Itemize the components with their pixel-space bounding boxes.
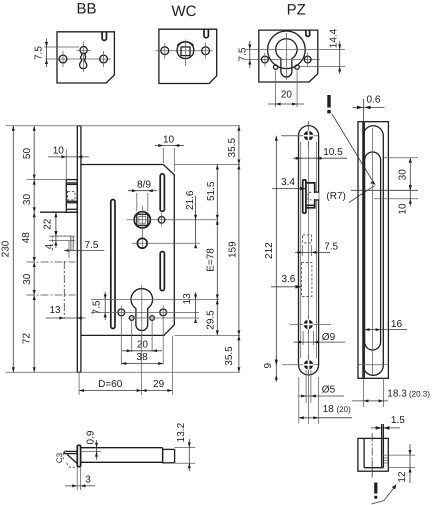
dim 3.4 — [272, 177, 306, 190]
bottom fold line — [358, 364, 388, 366]
dim 13 left — [46, 305, 86, 320]
svg-text:D=60: D=60 — [98, 379, 123, 390]
dim 10.5 — [293, 147, 347, 160]
faceplate outline rounded — [299, 126, 319, 375]
svg-text:(20.3): (20.3) — [409, 390, 430, 399]
svg-text:(R7): (R7) — [326, 191, 345, 202]
svg-text:159: 159 — [227, 241, 238, 258]
dim 10 top right — [155, 135, 184, 173]
box bottom inner — [364, 467, 383, 469]
dim 7.5 faceplate — [295, 242, 339, 254]
PZ fixing hole left — [273, 65, 277, 69]
dash-dot line upper — [27, 261, 76, 263]
inner slot stadium — [365, 152, 381, 350]
latch head bevel — [63, 451, 77, 467]
svg-text:1.5: 1.5 — [391, 415, 405, 426]
BB keyhole — [80, 47, 87, 54]
dim Ø5 — [298, 370, 344, 403]
dim Ø9 — [293, 331, 345, 345]
BB top slot — [102, 32, 106, 41]
svg-text:7.5: 7.5 — [238, 47, 249, 61]
exclamation top — [327, 95, 330, 113]
hidden cylinder hole dash-dot — [301, 263, 312, 297]
dim column 35.5 / 159 / 35.5 — [224, 126, 240, 372]
svg-text:29: 29 — [153, 379, 165, 390]
svg-text:13.2: 13.2 — [176, 422, 187, 442]
svg-text:7.5: 7.5 — [34, 46, 45, 60]
dim 1.5 — [371, 415, 405, 468]
dim column 51.5 / E=78 / 29.5 — [205, 165, 218, 336]
cylinder side holes — [91, 306, 199, 320]
PZ screw hole right — [304, 56, 311, 63]
svg-text:0.9: 0.9 — [85, 430, 96, 444]
BB screw hole right — [100, 55, 108, 63]
svg-text:10: 10 — [53, 146, 65, 157]
svg-text:WC: WC — [172, 3, 197, 20]
chain boundary latch bottom — [40, 211, 77, 213]
dim 4 — [44, 229, 57, 249]
svg-text:0.6: 0.6 — [367, 95, 381, 106]
box hatch right wall — [384, 458, 388, 463]
faceplate strip (edge view) — [77, 126, 81, 372]
svg-text:72: 72 — [22, 333, 33, 345]
hidden follower slot dashed — [303, 235, 312, 256]
svg-text:14.4: 14.4 — [328, 28, 339, 48]
svg-text:35.5: 35.5 — [224, 346, 235, 366]
dim 7.5 cylinder — [91, 292, 106, 320]
svg-text:PZ: PZ — [287, 2, 306, 19]
faceplate section bar — [77, 445, 80, 466]
leader from bottom exclamation — [372, 484, 397, 504]
svg-text:212: 212 — [264, 242, 275, 259]
PZ dim 7.5 — [238, 41, 252, 68]
svg-text:21.6: 21.6 — [185, 190, 196, 210]
dim 20 cylinder fixing — [122, 321, 162, 353]
svg-text:BB: BB — [76, 1, 96, 18]
WC follower circle — [177, 42, 194, 59]
svg-text:13: 13 — [182, 293, 193, 305]
right small hole — [158, 213, 165, 227]
svg-text:13: 13 — [49, 305, 61, 316]
cylinder centerline horizontal — [91, 298, 219, 300]
cylinder hole (europrofile) — [131, 285, 153, 340]
WC follower centerline — [184, 40, 186, 67]
WC follower top arc — [177, 42, 193, 46]
PZ dim 20 — [268, 71, 304, 108]
svg-text:22: 22 — [43, 218, 54, 230]
right upper slot — [160, 174, 164, 212]
svg-text:30: 30 — [22, 194, 33, 206]
svg-text:8/9: 8/9 — [137, 180, 151, 191]
svg-text:30: 30 — [397, 169, 408, 181]
chain dimension line 50/30/48/30/72 — [21, 126, 36, 372]
WC screw hole right — [202, 47, 210, 55]
svg-text:3: 3 — [85, 475, 91, 486]
horizontal centerline through follower — [127, 219, 218, 221]
svg-text:230: 230 — [0, 240, 11, 257]
dim 29 — [142, 336, 173, 395]
side view centerline — [372, 128, 374, 375]
box outer rectangle — [358, 438, 388, 471]
dash-dot handle axis vertical — [63, 261, 65, 319]
dim 7.5 deadbolt — [64, 240, 104, 258]
dim 12 — [383, 444, 416, 483]
svg-text:51.5: 51.5 — [206, 181, 217, 201]
top extension line — [6, 125, 241, 127]
svg-text:9: 9 — [263, 362, 274, 368]
PZ fixing hole right — [295, 65, 299, 69]
latch bolt plan — [66, 180, 77, 213]
WC escutcheon plate outline — [159, 29, 217, 83]
svg-text:3.6: 3.6 — [281, 274, 295, 285]
dim 3.6 — [271, 274, 301, 289]
dim 13.2 — [175, 422, 196, 471]
WC centerline horizontal — [156, 50, 213, 52]
dim 30 side — [351, 158, 418, 191]
svg-text:20: 20 — [137, 340, 149, 351]
svg-text:50: 50 — [22, 148, 33, 160]
svg-text:35.5: 35.5 — [227, 138, 238, 158]
latch body — [81, 448, 175, 463]
BB keyhole centerline — [83, 42, 85, 73]
PZ escutcheon plate outline — [259, 30, 318, 82]
bottom screw — [282, 355, 318, 374]
svg-text:20: 20 — [281, 90, 293, 101]
svg-text:29.5: 29.5 — [205, 310, 216, 330]
dim 0.9 — [80, 430, 101, 459]
dim 22 — [43, 212, 58, 236]
dim 10 side — [374, 183, 418, 215]
PZ profile cylinder hole — [276, 39, 297, 77]
left long slot — [111, 200, 115, 329]
chain boundary latch top — [27, 179, 67, 181]
lock case outline — [81, 165, 174, 336]
svg-text:4: 4 — [44, 243, 55, 249]
box left wall inner — [363, 438, 365, 467]
dim 18 (20) — [299, 377, 352, 424]
deadbolt hidden outline — [49, 236, 75, 250]
svg-text:48: 48 — [21, 232, 32, 244]
svg-text:10.5: 10.5 — [323, 147, 343, 158]
svg-text:18.3: 18.3 — [387, 389, 407, 400]
PZ dim 14.4 — [328, 28, 341, 74]
PZ centerline screws — [246, 59, 320, 61]
middle screw — [290, 315, 331, 335]
right lower slot — [160, 252, 164, 291]
leader from exclamation to side view — [332, 114, 376, 185]
svg-text:(20): (20) — [337, 405, 352, 414]
top screw — [282, 123, 318, 148]
PZ line through fixing holes — [300, 66, 345, 68]
BB centerline horizontal — [46, 58, 112, 60]
svg-text:7.5: 7.5 — [91, 300, 102, 314]
svg-text:10: 10 — [163, 135, 175, 146]
PZ top slot — [306, 30, 310, 36]
case top ext right — [175, 164, 240, 166]
svg-text:Ø9: Ø9 — [322, 332, 336, 343]
spindle follower — [134, 206, 150, 250]
dim 38 side holes — [121, 316, 163, 365]
faceplate center vertical line — [308, 121, 310, 424]
dim 13 right — [182, 292, 197, 323]
svg-text:C3: C3 — [55, 452, 64, 463]
box centerline — [371, 434, 373, 478]
PZ screw hole left — [262, 56, 269, 63]
svg-text:18: 18 — [323, 404, 335, 415]
BB escutcheon plate outline — [57, 32, 114, 83]
BB screw hole left — [59, 55, 67, 63]
follower lower hole — [132, 238, 200, 248]
dim 16 — [364, 319, 407, 331]
dim 18.3 (20.3) — [352, 378, 430, 407]
bottom extension line — [6, 371, 241, 373]
svg-text:7.5: 7.5 — [324, 242, 338, 253]
PZ rose outer circle — [268, 31, 306, 69]
faceplate inner bend lines — [300, 142, 302, 358]
WC screw hole left — [161, 47, 169, 55]
svg-text:38: 38 — [137, 352, 149, 363]
svg-text:30: 30 — [22, 273, 33, 285]
dim 230 — [0, 126, 15, 372]
dash-dot line lower — [27, 294, 76, 296]
case bottom ext right — [175, 334, 241, 336]
svg-text:10: 10 — [397, 203, 408, 215]
cylinder small fixing circles — [128, 316, 199, 321]
dim 21.6 — [185, 190, 197, 248]
PZ centerline cylinder — [246, 48, 345, 50]
dim 0.6 — [353, 95, 385, 129]
leader from (R7) — [349, 186, 375, 203]
dim D=60 — [79, 333, 142, 395]
svg-text:12: 12 — [397, 471, 408, 483]
dim 3 — [65, 467, 95, 490]
dim 212 — [264, 136, 302, 365]
WC top slot — [204, 29, 208, 38]
dim 10 latch protrusion — [48, 146, 89, 181]
faceplate edge double line — [363, 122, 364, 379]
svg-text:16: 16 — [391, 319, 403, 330]
WC follower square — [181, 47, 190, 56]
svg-text:Ø5: Ø5 — [322, 385, 336, 396]
BB dim 7.5 — [34, 39, 79, 68]
outer slot stadium — [363, 126, 383, 376]
PZ vertical centerline — [285, 33, 287, 80]
svg-text:E=78: E=78 — [205, 248, 216, 272]
side view outer rectangle — [358, 122, 388, 379]
dim 8/9 square — [128, 180, 157, 212]
latch front cutout — [303, 180, 319, 213]
svg-text:3.4: 3.4 — [281, 177, 295, 188]
exclamation bottom — [374, 483, 377, 499]
svg-text:7.5: 7.5 — [85, 240, 99, 251]
dim 9 — [263, 356, 278, 382]
